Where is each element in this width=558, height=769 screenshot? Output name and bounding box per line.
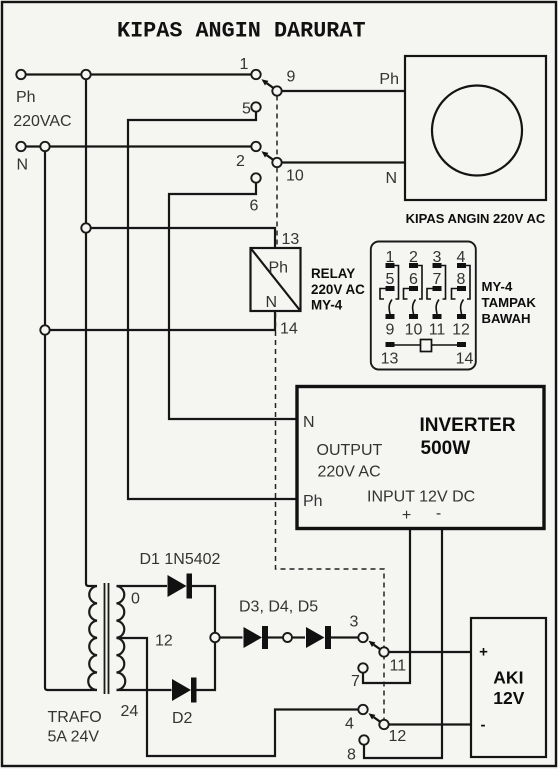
svg-text:AKI: AKI [493,668,523,688]
wire inverter - to pin 8 [364,529,442,758]
svg-text:220VAC: 220VAC [13,113,71,130]
contact pin 2 [251,142,260,151]
socket contact column pins 4-8-12 [452,263,471,319]
svg-text:12: 12 [389,728,407,745]
svg-text:6: 6 [409,271,418,288]
wire rectifier node to D3 [220,636,243,638]
svg-text:Ph: Ph [16,89,36,106]
contact pin 12 with actuator arrow [374,717,381,722]
wire relay pin 14 to node N [50,311,276,330]
contact pin 4 [358,705,367,714]
contact pin 10 with actuator arrow [267,155,274,160]
svg-text:-: - [436,505,441,522]
dashed mechanical link relay to lower contacts [276,313,385,719]
svg-text:N: N [17,157,29,174]
svg-text:10: 10 [286,168,304,185]
svg-text:10: 10 [405,322,423,339]
svg-text:11: 11 [429,322,446,339]
svg-text:D3, D4, D5: D3, D4, D5 [239,599,318,616]
socket contact column pins 2-6-10 [404,263,423,319]
svg-text:5A 24V: 5A 24V [48,729,100,746]
contact pin 7 [358,663,367,672]
svg-text:BAWAH: BAWAH [482,311,531,326]
contact pin 5 [251,102,260,111]
svg-text:1: 1 [240,56,249,73]
svg-text:-: - [481,717,486,734]
svg-text:14: 14 [456,351,474,368]
diode D1 1N5402 [168,574,193,599]
svg-text:+: + [479,644,488,661]
svg-text:220V AC: 220V AC [311,282,365,297]
contact pin 3 [358,633,367,642]
wire Ph vertical to transformer primary [86,75,97,587]
svg-text:0: 0 [131,591,140,608]
terminal N [16,142,25,151]
node N to relay junction [40,325,49,334]
wire node to D4 [292,636,305,638]
dashed mechanical link upper contacts to relay [276,96,278,247]
contact pin 6 [251,173,260,182]
svg-text:6: 6 [250,198,259,215]
wire inverter + to pin 7 [363,529,410,683]
fan KIPAS ANGIN 220V AC [405,56,546,200]
battery AKI 12V [471,618,546,757]
inverter INVERTER 500W [297,387,544,529]
svg-text:N: N [266,294,278,311]
contact pin 1 [251,70,260,79]
svg-text:220V AC: 220V AC [318,464,381,481]
wire N vertical to transformer primary bottom [45,147,97,691]
svg-text:N: N [385,170,397,187]
svg-text:14: 14 [280,321,298,338]
svg-text:12: 12 [452,322,470,339]
svg-text:INPUT 12V DC: INPUT 12V DC [367,489,475,506]
svg-text:N: N [303,414,315,431]
wire D2 cathode to rectifier node [196,643,216,691]
svg-text:13: 13 [282,231,300,248]
svg-text:9: 9 [386,322,395,339]
svg-text:INVERTER: INVERTER [420,415,516,436]
wire pin 5 to inverter Ph output [128,112,296,500]
node D3-D4 junction [283,633,292,642]
relay coil RELAY 220V AC MY-4 [251,248,301,311]
svg-text:D2: D2 [172,710,193,727]
wire node Ph to relay pin 13 [91,228,276,248]
svg-text:RELAY: RELAY [311,266,355,281]
svg-text:8: 8 [457,271,466,288]
svg-text:24: 24 [121,703,139,720]
svg-text:5: 5 [386,271,395,288]
wire D4 to pin 3 [331,636,359,638]
contact pin 9 with actuator arrow [267,83,274,88]
wire pin 6 to inverter N output [169,183,296,420]
svg-text:TRAFO: TRAFO [48,709,102,726]
svg-text:7: 7 [351,673,360,690]
contact pin 8 [359,735,368,744]
svg-text:9: 9 [287,69,296,86]
svg-text:Ph: Ph [303,493,323,510]
wire pin 9 to fan Ph [282,90,405,92]
diode D2 [172,678,197,703]
wire transformer 12 tap to pin 4 [117,638,359,756]
wire Ph bus [26,73,252,75]
svg-text:13: 13 [381,351,399,368]
transformer T1 TRAFO 5A 24V [88,583,125,694]
MY-4 socket bottom view [371,242,476,370]
svg-text:+: + [402,507,411,524]
contact pin 11 with actuator arrow [374,645,381,650]
wire D3 to node [267,636,283,638]
node Ph junction [81,70,90,79]
svg-text:7: 7 [433,271,442,288]
svg-text:Ph: Ph [269,260,289,277]
svg-text:12V: 12V [493,688,524,708]
wire pin 12 to AKI - [389,723,471,725]
svg-text:500W: 500W [421,438,471,459]
wire transformer 0 tap to D1 [117,585,168,587]
svg-text:KIPAS ANGIN DARURAT: KIPAS ANGIN DARURAT [117,19,366,44]
wire N bus [26,145,252,147]
wire D1 cathode to rectifier node [191,586,215,633]
svg-text:MY-4: MY-4 [311,298,343,313]
svg-text:12: 12 [155,633,173,650]
svg-text:MY-4: MY-4 [482,279,513,294]
diode D3 [244,626,269,649]
svg-text:TAMPAK: TAMPAK [482,295,537,310]
socket contact column pins 3-7-11 [427,263,446,319]
svg-text:11: 11 [390,658,407,675]
node N junction [40,142,49,151]
svg-text:Ph: Ph [379,71,399,88]
socket contact column pins 1-5-9 [380,263,399,319]
svg-text:5: 5 [242,101,251,118]
svg-text:4: 4 [345,716,354,733]
wire pin 10 to fan N [282,161,405,163]
svg-text:3: 3 [350,614,359,631]
svg-text:KIPAS ANGIN 220V AC: KIPAS ANGIN 220V AC [406,211,546,226]
svg-text:OUTPUT: OUTPUT [317,442,383,459]
svg-text:D1 1N5402: D1 1N5402 [140,551,221,568]
terminal Ph 220VAC [16,70,25,79]
wire pin 11 to AKI + [389,651,471,653]
wire transformer 24 tap to D2 [117,689,172,691]
socket contacts columns [380,263,470,319]
diode D4 [306,626,331,649]
svg-text:8: 8 [347,747,356,764]
socket coil pins 13 14 [386,340,467,352]
node Ph to relay junction [81,223,90,232]
node rectifier output junction [210,633,219,642]
svg-text:2: 2 [236,153,245,170]
